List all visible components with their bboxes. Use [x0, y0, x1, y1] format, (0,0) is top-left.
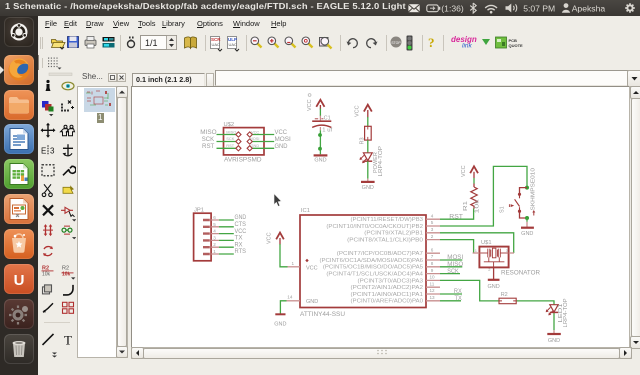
svg-text:U: U	[14, 272, 25, 289]
svg-text:S1: S1	[500, 206, 506, 213]
svg-text:GND: GND	[306, 299, 318, 305]
svg-text:1: 1	[475, 248, 478, 253]
svg-text:E: E	[41, 146, 46, 155]
svg-text:11: 11	[430, 281, 435, 286]
svg-text:VCC: VCC	[307, 99, 313, 111]
svg-text:UAC: UAC	[229, 42, 238, 47]
svg-text:QUOTE: QUOTE	[509, 43, 524, 48]
svg-text:10k: 10k	[62, 271, 71, 277]
svg-text:AVRISPSMD: AVRISPSMD	[224, 156, 262, 163]
svg-text:3: 3	[50, 146, 55, 155]
svg-text:ATTINY44-SSU: ATTINY44-SSU	[300, 311, 345, 318]
svg-text:?: ?	[428, 35, 435, 50]
svg-text:MISO: MISO	[200, 130, 217, 136]
svg-text:4: 4	[431, 213, 434, 218]
svg-text:R1: R1	[463, 201, 469, 211]
svg-text:TX: TX	[455, 296, 462, 302]
svg-text:U$1: U$1	[481, 240, 492, 246]
svg-text:LRP4-TOP: LRP4-TOP	[563, 298, 569, 328]
svg-text:GND: GND	[274, 321, 286, 327]
svg-text:(PCINT3/T0/ADC3)PA3: (PCINT3/T0/ADC3)PA3	[358, 278, 424, 284]
svg-text:VCC: VCC	[275, 130, 288, 136]
svg-text:VCC: VCC	[267, 232, 273, 244]
svg-text:SCK: SCK	[202, 137, 214, 143]
svg-text:(PCINT8/XTAL1/CLKI)PB0: (PCINT8/XTAL1/CLKI)PB0	[347, 238, 423, 244]
svg-text:4: 4	[213, 229, 216, 234]
svg-text:GND: GND	[362, 185, 374, 191]
svg-text:link: link	[462, 43, 473, 50]
svg-text:MOSI: MOSI	[447, 255, 463, 261]
svg-text:5: 5	[213, 222, 216, 227]
svg-text:2: 2	[213, 242, 216, 247]
svg-text:R2: R2	[501, 292, 508, 298]
svg-text:(PCINT11/RESET/DW)PB3: (PCINT11/RESET/DW)PB3	[351, 217, 424, 223]
svg-text:7: 7	[431, 254, 434, 259]
svg-text:CTS: CTS	[235, 222, 247, 228]
svg-text:SKHMPSE010: SKHMPSE010	[531, 168, 537, 211]
svg-text:GND: GND	[251, 143, 260, 148]
svg-text:(PCINT5/OC1B/MISO/DO/ADC5)PA5: (PCINT5/OC1B/MISO/DO/ADC5)PA5	[323, 265, 423, 271]
svg-text:SCK: SCK	[226, 136, 234, 141]
svg-text:5: 5	[431, 220, 434, 225]
svg-text:MOSI: MOSI	[275, 137, 292, 143]
svg-text:TX: TX	[235, 236, 243, 242]
svg-text:GND: GND	[275, 144, 289, 150]
svg-text:1: 1	[213, 249, 216, 254]
svg-text:(PCINT2/AIN1/ADC2)PA2: (PCINT2/AIN1/ADC2)PA2	[351, 285, 424, 291]
svg-text:(PCINT10/INT0/OC0A/CKOUT)PB2: (PCINT10/INT0/OC0A/CKOUT)PB2	[326, 224, 423, 230]
svg-text:1: 1	[292, 261, 295, 266]
svg-text:VCC: VCC	[235, 229, 247, 235]
svg-text:VCC: VCC	[306, 265, 318, 271]
svg-text:(PCINT6/OC1A/SDA/MOSI/ADC6)PA6: (PCINT6/OC1A/SDA/MOSI/ADC6)PA6	[320, 258, 424, 264]
svg-text:VCC: VCC	[461, 165, 467, 177]
svg-text:8: 8	[431, 261, 434, 266]
svg-text:(PCINT9/XTAL2)PB1: (PCINT9/XTAL2)PB1	[364, 231, 423, 237]
svg-text:RST: RST	[449, 214, 463, 220]
svg-text:RESONATOR: RESONATOR	[501, 269, 541, 276]
svg-text:(PCINT4/T1/SCL/USCK/ADC4)PA4: (PCINT4/T1/SCL/USCK/ADC4)PA4	[326, 272, 423, 278]
svg-text:MOSI: MOSI	[250, 136, 260, 141]
svg-text:10: 10	[430, 275, 436, 280]
svg-text:RST: RST	[226, 143, 234, 148]
svg-text:14: 14	[287, 295, 293, 300]
svg-text:GND: GND	[487, 284, 499, 290]
svg-text:9: 9	[431, 268, 434, 273]
svg-text:IC1: IC1	[301, 208, 310, 214]
svg-text:3: 3	[431, 227, 434, 232]
svg-text:(PCINT7/ICP/OC0B/ADC7)PA7: (PCINT7/ICP/OC0B/ADC7)PA7	[337, 251, 423, 257]
svg-text:GND: GND	[314, 158, 326, 164]
svg-text:6: 6	[431, 247, 434, 252]
svg-text:MISO: MISO	[447, 262, 463, 268]
svg-text:VCC: VCC	[355, 105, 361, 117]
svg-text:3: 3	[213, 235, 216, 240]
svg-text:T: T	[64, 332, 72, 347]
svg-text:VCC: VCC	[251, 129, 259, 134]
svg-text:STOP: STOP	[391, 41, 401, 45]
svg-text:MISO: MISO	[226, 129, 236, 134]
svg-text:2: 2	[431, 234, 434, 239]
svg-text:10k: 10k	[475, 199, 481, 214]
svg-text:GND: GND	[521, 231, 533, 237]
svg-text:GND: GND	[548, 338, 560, 344]
svg-text:RX: RX	[235, 242, 243, 248]
svg-text:Apeksha: Apeksha	[572, 4, 606, 14]
svg-text:6: 6	[213, 215, 216, 220]
svg-text:13: 13	[430, 295, 436, 300]
svg-text:SCK: SCK	[447, 269, 458, 275]
svg-text:(1:36): (1:36)	[441, 4, 464, 14]
svg-text:R3: R3	[360, 137, 366, 144]
svg-text:RST: RST	[202, 144, 215, 150]
svg-text:RTS: RTS	[235, 249, 247, 255]
svg-text:1 uf: 1 uf	[322, 128, 332, 134]
svg-text:UAC: UAC	[212, 42, 221, 47]
svg-text:(PCINT0/AREF/ADC0)PA0: (PCINT0/AREF/ADC0)PA0	[351, 299, 424, 305]
svg-text:GND: GND	[235, 215, 247, 221]
svg-text:10k: 10k	[42, 271, 51, 277]
svg-text:5:07 PM: 5:07 PM	[523, 4, 555, 14]
svg-text:12: 12	[430, 288, 436, 293]
svg-text:LRP4-TOP: LRP4-TOP	[378, 145, 384, 176]
svg-text:RX: RX	[454, 289, 462, 295]
svg-text:1/1: 1/1	[145, 38, 158, 48]
svg-text:(PCINT1/AIN0/ADC1)PA1: (PCINT1/AIN0/ADC1)PA1	[351, 292, 424, 298]
